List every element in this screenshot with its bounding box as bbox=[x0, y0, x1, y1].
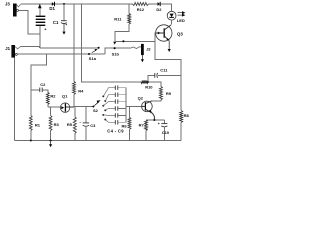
wire left rail bbox=[14, 58, 16, 141]
transistor Q1 base arrow bbox=[61, 106, 64, 109]
wire R6 top lead bbox=[129, 106, 131, 117]
switch S2 pole bbox=[92, 105, 94, 107]
connector J2 body bbox=[141, 44, 144, 55]
wire R3 bottom to rail bbox=[50, 131, 52, 141]
node rail-C1 junction bbox=[63, 3, 65, 5]
resistor R1 bbox=[29, 116, 32, 131]
ground arrow below C1 bbox=[62, 23, 65, 34]
svg-text:R5: R5 bbox=[67, 122, 73, 127]
wire caps rail to Q2 base bbox=[126, 105, 142, 108]
svg-text:−: − bbox=[79, 121, 81, 125]
wire S2 contact 1 to C4 bbox=[103, 88, 115, 97]
ground arrow below J2 bbox=[141, 55, 144, 62]
svg-text:R2: R2 bbox=[50, 94, 56, 99]
resistor R11 bbox=[128, 14, 131, 25]
wire R10 to R9 top bbox=[148, 82, 161, 87]
wire D2 to LED top bbox=[161, 4, 172, 11]
svg-text:R10: R10 bbox=[145, 84, 153, 89]
wire R9 bottom to Q2 collector elbow bbox=[152, 100, 161, 101]
capacitor C10 bottom plate bbox=[161, 125, 167, 128]
LED symbol bbox=[167, 11, 176, 20]
capacitor C1 top plate bbox=[61, 20, 67, 22]
wire R11 bottom elbow to S1b bbox=[115, 24, 129, 41]
wire LED cathode to Q3 collector bbox=[170, 20, 172, 25]
wire J3 ring to battery minus bbox=[19, 10, 40, 33]
wire J1 ring (B) bbox=[17, 53, 105, 55]
svg-text:C2: C2 bbox=[40, 82, 46, 87]
wire J3 tip contact notch bbox=[17, 4, 21, 7]
svg-text:C4 - C9: C4 - C9 bbox=[107, 129, 124, 134]
capacitor C6 right plate bbox=[117, 99, 119, 103]
wire battery top lead bbox=[39, 8, 41, 16]
node R3 ground junction bbox=[50, 139, 52, 141]
svg-text:R1: R1 bbox=[35, 122, 41, 127]
capacitor C3 top plate bbox=[83, 122, 89, 124]
wire S2 contact 3 to C6 bbox=[103, 102, 115, 106]
capacitor C7 right plate bbox=[117, 106, 119, 110]
wire Q2 emitter diagonal bbox=[146, 109, 155, 120]
svg-text:Q3: Q3 bbox=[177, 32, 183, 37]
wire R4 bottom to emitter node bbox=[73, 95, 75, 107]
wire C11 left lead bbox=[148, 75, 155, 82]
wire R6 bottom to rail bbox=[129, 129, 131, 140]
battery B1 plate 1 bbox=[36, 15, 46, 17]
node Q2 emitter junction bbox=[153, 119, 155, 121]
svg-text:J3: J3 bbox=[5, 1, 10, 6]
node wire C junction bbox=[122, 40, 124, 42]
svg-text:Q2: Q2 bbox=[138, 95, 144, 100]
capacitor C8 right plate bbox=[117, 113, 119, 117]
svg-text:+: + bbox=[158, 122, 160, 126]
capacitor C8 left plate bbox=[114, 113, 116, 117]
capacitor C7 left plate bbox=[114, 106, 116, 110]
svg-text:J2: J2 bbox=[146, 47, 151, 52]
svg-text:C11: C11 bbox=[160, 68, 168, 73]
wire S2 contact 4 to C7 bbox=[105, 109, 115, 111]
wire Q3 emitter diagonal bbox=[165, 36, 169, 40]
wire B step up and on to J2 bbox=[105, 48, 130, 54]
connector J1 ring contact bbox=[15, 53, 17, 55]
wire R8 bottom to rail corner bbox=[180, 123, 182, 141]
capacitor C6 left plate bbox=[114, 99, 116, 103]
resistor R4 bbox=[73, 82, 76, 95]
wire caps bank right rail bbox=[125, 88, 127, 123]
wire S2 contact 2 to C5 bbox=[105, 95, 115, 101]
wire C2 right lead to R2 bbox=[43, 90, 48, 93]
transistor Q3 emitter arrowhead bbox=[166, 38, 169, 41]
wire C7 right lead bbox=[118, 108, 126, 110]
wire C11 right lead to rail bbox=[158, 74, 181, 76]
svg-text:C10: C10 bbox=[162, 130, 170, 135]
LED light arrows bbox=[178, 12, 185, 17]
transistor Q3 base bar bbox=[163, 28, 165, 37]
switch S2 contact 2 bbox=[104, 100, 106, 102]
capacitor C9 right plate bbox=[117, 120, 119, 124]
ground arrow below rail bbox=[49, 141, 52, 148]
wire J1 tip contact notch bbox=[15, 46, 21, 48]
capacitor C10 top plate bbox=[161, 123, 167, 125]
wire R7 bottom to rail bbox=[145, 131, 147, 141]
wire Q3 base node to right rail bbox=[155, 41, 181, 110]
switch S1a arm bbox=[92, 50, 96, 52]
wire R2 bottom to base node bbox=[47, 105, 49, 107]
wire C S1b to Q3 base bbox=[115, 33, 156, 41]
capacitor C11 left plate bbox=[154, 73, 156, 78]
battery B1 plate 3 bbox=[36, 21, 46, 23]
svg-text:R8: R8 bbox=[184, 113, 190, 118]
resistor R5 bbox=[73, 117, 76, 134]
diode D1 bbox=[52, 2, 55, 6]
wire Q3 base lead inside bbox=[156, 32, 164, 34]
switch S2 contact 3 bbox=[102, 105, 104, 107]
wire R12 to D2 bbox=[149, 3, 158, 5]
capacitor C5 right plate bbox=[117, 93, 119, 97]
wire Q2 collector diagonal bbox=[146, 101, 152, 104]
connector J1 body bbox=[11, 45, 15, 58]
wire C1 top lead bbox=[63, 4, 65, 21]
wire bottom rail bbox=[15, 140, 182, 142]
svg-text:R3: R3 bbox=[54, 122, 60, 127]
switch S1b arm arrowhead bbox=[113, 42, 116, 45]
wire J2 tip notch bbox=[130, 47, 141, 49]
svg-text:R4: R4 bbox=[78, 89, 84, 94]
switch S2 contact 6 bbox=[104, 119, 106, 121]
wire C2 left lead bbox=[31, 89, 40, 91]
switch S1a throw contact bbox=[98, 47, 100, 49]
svg-text:D1: D1 bbox=[49, 6, 55, 11]
connector J3 ring contact bbox=[17, 9, 19, 11]
capacitor C11 right plate bbox=[156, 73, 159, 78]
transistor Q2 body bbox=[142, 101, 153, 112]
switch S1b pole bbox=[114, 47, 116, 49]
capacitor C4 left plate bbox=[114, 86, 116, 90]
capacitor C1 bottom plate bbox=[61, 22, 67, 25]
capacitor C3 bottom plate bbox=[83, 125, 89, 126]
capacitor C5 left plate bbox=[114, 93, 116, 97]
battery B1 plate 2 bbox=[36, 18, 46, 20]
svg-text:R12: R12 bbox=[137, 7, 145, 12]
switch S2 contact 1 bbox=[102, 95, 104, 97]
resistor R9 bbox=[159, 87, 162, 100]
transistor Q3 body bbox=[156, 25, 172, 41]
transistor Q3 base arrow bbox=[158, 32, 161, 35]
resistor R6 bbox=[128, 117, 131, 129]
svg-text:C1: C1 bbox=[53, 20, 59, 25]
resistor R8 bbox=[180, 111, 183, 123]
wire Q2 emitter node horizontal bbox=[146, 119, 164, 121]
wire S2 contact 5 to C8 bbox=[103, 114, 115, 117]
svg-text:S2: S2 bbox=[93, 108, 99, 113]
wire C3 bottom lead bbox=[85, 126, 87, 141]
resistor R2 bbox=[46, 92, 49, 104]
switch S2 arm bbox=[94, 102, 98, 106]
wire Q3 collector diagonal bbox=[165, 25, 172, 30]
wire S2 contact 6 to C9 bbox=[105, 120, 115, 123]
svg-text:S1b: S1b bbox=[112, 51, 120, 56]
capacitor C9 left plate bbox=[114, 120, 116, 124]
wire C3 top lead bbox=[85, 107, 87, 123]
transistor Q1 body bbox=[60, 103, 69, 112]
wire node A to S1a throw bbox=[40, 47, 99, 49]
svg-text:S1a: S1a bbox=[89, 56, 97, 61]
transistor Q1 bar bbox=[64, 103, 66, 111]
wire C8 right lead bbox=[118, 114, 126, 116]
wire top V+ rail bbox=[21, 3, 133, 5]
switch S1a pole bbox=[88, 53, 90, 55]
wire rail to R4 top bbox=[73, 4, 75, 82]
wire C9 right lead bbox=[118, 121, 126, 123]
wire Q2 base lead bbox=[142, 105, 146, 107]
switch S1a arm arrowhead bbox=[95, 49, 98, 51]
wire C10 bottom lead bbox=[163, 127, 165, 141]
transistor Q2 emitter arrowhead bbox=[149, 110, 152, 113]
diode D2 bbox=[158, 2, 161, 6]
svg-text:LED: LED bbox=[177, 18, 185, 23]
wire B branch down to C2/R1 bbox=[31, 54, 47, 116]
wire rail to R11 bbox=[128, 4, 130, 14]
capacitor C4 right plate bbox=[117, 86, 119, 90]
battery B1 plate 4 bbox=[36, 24, 46, 26]
resistor R10 bbox=[141, 81, 148, 84]
svg-text:D2: D2 bbox=[156, 7, 162, 12]
wire rail down to R10 feed bbox=[82, 4, 141, 82]
svg-text:R7: R7 bbox=[139, 123, 145, 128]
wire R5 bottom to rail bbox=[74, 134, 76, 141]
transistor Q2 base bar bbox=[144, 102, 146, 110]
svg-text:Q1: Q1 bbox=[62, 93, 68, 98]
switch S2 contact 4 bbox=[104, 109, 106, 111]
wire R1 bottom to rail bbox=[30, 131, 32, 141]
connector J3 body bbox=[13, 4, 17, 17]
resistor R3 bbox=[49, 116, 52, 131]
svg-text:+: + bbox=[65, 23, 67, 27]
resistor R12 bbox=[133, 3, 149, 6]
wire base node to Q1 bbox=[48, 106, 61, 108]
wire battery bottom lead bbox=[39, 26, 41, 48]
wire C5 right lead bbox=[118, 94, 126, 96]
wire R3 top lead bbox=[50, 107, 52, 116]
capacitor C2 left plate bbox=[39, 88, 41, 93]
switch S2 contact 5 bbox=[102, 114, 104, 116]
node R10-C11 junction bbox=[147, 81, 149, 83]
svg-text:R6: R6 bbox=[122, 123, 128, 128]
svg-text:J1: J1 bbox=[5, 46, 10, 51]
wire C10 top lead bbox=[163, 120, 165, 123]
ground arrow below Q3 emitter bbox=[168, 41, 171, 52]
wire emitter node to S2 pole bbox=[74, 106, 93, 108]
wire C4 right lead bbox=[118, 87, 126, 89]
svg-text:C3: C3 bbox=[90, 123, 96, 128]
node R1 rail junction bbox=[30, 140, 32, 142]
wire Q1 right lead bbox=[66, 106, 74, 108]
svg-text:R9: R9 bbox=[166, 91, 172, 96]
battery B1 plus arrow bbox=[38, 4, 42, 8]
switch S2 arm arrowhead bbox=[97, 100, 101, 103]
svg-text:R11: R11 bbox=[114, 17, 122, 22]
wire R5 top lead bbox=[74, 107, 76, 117]
wire C6 right lead bbox=[118, 101, 126, 103]
resistor R7 bbox=[145, 120, 148, 131]
wire J1 tip to node bbox=[21, 46, 40, 47]
capacitor C2 right plate bbox=[41, 88, 43, 93]
